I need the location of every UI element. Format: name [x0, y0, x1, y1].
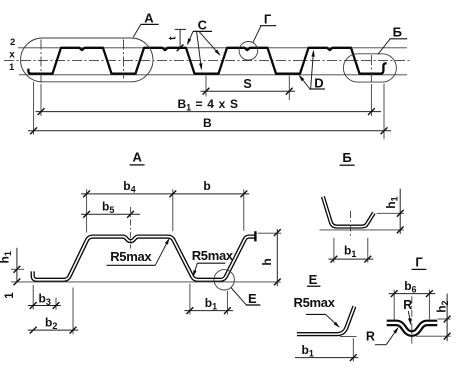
- svg-text:B: B: [203, 116, 212, 130]
- dimension b4 and b: [86, 189, 88, 232]
- detail callout stadium A (left): [21, 38, 154, 82]
- dimension b2: [72, 288, 74, 335]
- dimension h1 (left): [11, 268, 24, 270]
- svg-text:Б: Б: [393, 25, 402, 40]
- dimension b1 of detail E: [352, 338, 354, 361]
- svg-text:b1: b1: [344, 244, 356, 260]
- svg-text:1: 1: [9, 62, 15, 73]
- svg-text:b5: b5: [102, 200, 114, 216]
- detail A sheet break bar: [254, 231, 256, 241]
- dimension h (right): [258, 232, 282, 234]
- dimension b1 of detail B: [333, 238, 335, 263]
- detail G centerline: [411, 296, 413, 343]
- detail B sheet profile: [323, 197, 374, 227]
- detail E sheet profile: [297, 306, 355, 334]
- neutral axis line x (dash-dot): [4, 60, 412, 62]
- detail G sheet profile: [387, 323, 438, 334]
- detail A base line: [11, 281, 281, 283]
- detail A sheet profile (double line): [33, 237, 256, 280]
- svg-text:Б: Б: [342, 150, 351, 165]
- svg-text:h1: h1: [384, 196, 400, 208]
- svg-text:Е: Е: [309, 272, 318, 287]
- dimension b3: [32, 285, 34, 310]
- svg-text:b: b: [203, 179, 210, 193]
- svg-text:R: R: [403, 298, 412, 312]
- svg-text:R5max: R5max: [192, 248, 234, 263]
- svg-text:А: А: [144, 11, 154, 26]
- dimension b5: [81, 213, 140, 215]
- dimension h2: [438, 318, 451, 320]
- svg-text:b1: b1: [205, 296, 217, 312]
- svg-text:b1: b1: [302, 343, 314, 359]
- trough 1 centerline: [40, 40, 42, 83]
- svg-text:2: 2: [10, 37, 15, 48]
- dimension b6: [393, 290, 395, 323]
- dimension B: [33, 82, 35, 135]
- detail E base line: [340, 335, 357, 337]
- profile outline (corrugated sheet cross-section): [28, 48, 386, 74]
- svg-text:h: h: [260, 258, 274, 265]
- detail callout stadium Б (right end): [343, 54, 396, 82]
- trough 5 centerline: [370, 55, 372, 83]
- detail callout circle Г on dimple: [239, 42, 258, 61]
- line 1 (bottom surface reference line): [19, 74, 407, 76]
- svg-text:1: 1: [4, 292, 16, 299]
- svg-text:Г: Г: [264, 12, 272, 27]
- svg-text:b4: b4: [123, 179, 135, 195]
- svg-text:R5max: R5max: [294, 295, 336, 310]
- svg-text:h1: h1: [0, 251, 13, 263]
- detail B centerline: [350, 211, 352, 236]
- svg-text:S: S: [243, 77, 251, 91]
- svg-text:= 4 x S: = 4 x S: [196, 97, 239, 111]
- dimension b1 of detail A: [189, 284, 191, 315]
- svg-text:С: С: [198, 17, 208, 32]
- dimple centerline of detail A: [130, 207, 132, 249]
- svg-text:x: x: [9, 50, 15, 61]
- trough 2 centerline: [123, 40, 125, 79]
- svg-text:b6: b6: [404, 279, 416, 295]
- detail callout circle E: [214, 270, 234, 290]
- svg-text:R: R: [366, 329, 375, 343]
- dimension B1 = 4 x S: [40, 84, 42, 116]
- dimension h1 of detail B: [377, 212, 404, 214]
- svg-text:А: А: [133, 150, 143, 165]
- svg-text:Г: Г: [415, 254, 423, 269]
- detail B base line: [320, 229, 404, 231]
- svg-text:B1: B1: [178, 97, 192, 113]
- svg-text:R5max: R5max: [110, 249, 152, 264]
- svg-text:b3: b3: [39, 291, 51, 307]
- svg-text:b2: b2: [45, 316, 57, 332]
- thickness dimension t: [179, 29, 181, 46]
- svg-text:D: D: [314, 76, 323, 91]
- svg-text:Е: Е: [248, 291, 257, 306]
- svg-text:t: t: [168, 36, 179, 40]
- dimension S: [205, 76, 207, 97]
- svg-text:h2: h2: [434, 300, 450, 312]
- line 2 (top surface reference line): [18, 47, 407, 49]
